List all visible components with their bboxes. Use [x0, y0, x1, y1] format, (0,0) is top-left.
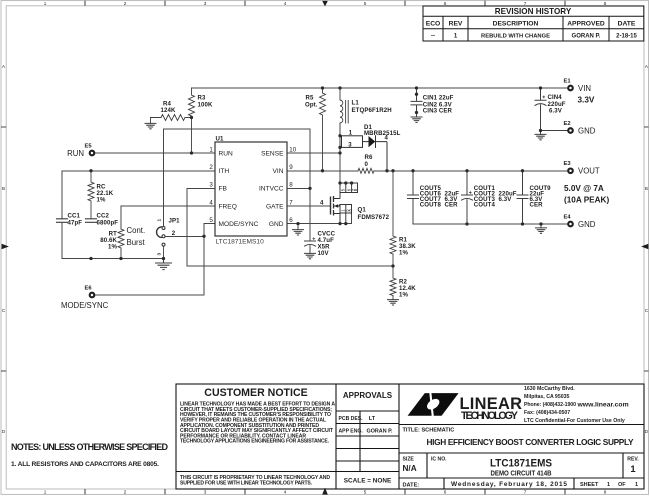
diode D1 dual schottky [340, 135, 387, 171]
svg-text:REBUILD WITH CHANGE: REBUILD WITH CHANGE [481, 34, 550, 40]
svg-text:5: 5 [364, 1, 367, 6]
ground at COUT rail [535, 228, 547, 233]
svg-text:1%: 1% [399, 249, 408, 256]
svg-text:1: 1 [209, 146, 213, 153]
svg-text:GATE: GATE [266, 203, 284, 210]
capacitor COUT1-4 (polarized) [462, 171, 473, 224]
svg-text:2-18-15: 2-18-15 [616, 34, 637, 40]
svg-text:APP ENG.: APP ENG. [339, 428, 364, 434]
transistor Q1 FDMS7672 [331, 183, 358, 224]
svg-text:SCALE = NONE: SCALE = NONE [344, 478, 392, 485]
svg-text:L1: L1 [352, 100, 360, 107]
svg-text:10V: 10V [318, 250, 330, 257]
IC U1 LTC1871EMS10 [215, 142, 287, 236]
svg-text:CIN3 CER: CIN3 CER [423, 108, 453, 115]
svg-text:6.3V: 6.3V [499, 196, 513, 203]
svg-text:TECHNOLOGY APPLICATIONS ENGINE: TECHNOLOGY APPLICATIONS ENGINEERING FOR … [180, 439, 330, 445]
svg-text:GORAN P.: GORAN P. [367, 428, 393, 434]
wire GND pin6 net [287, 213, 352, 230]
svg-text:6: 6 [444, 1, 447, 6]
svg-text:CC2: CC2 [97, 212, 110, 219]
svg-text:2: 2 [124, 490, 127, 495]
wire INTVCC net [164, 129, 311, 241]
svg-text:LT: LT [369, 416, 376, 422]
svg-text:1: 1 [44, 490, 47, 495]
svg-text:IC NO.: IC NO. [431, 456, 447, 462]
svg-text:HIGH EFFICIENCY BOOST CONVERTE: HIGH EFFICIENCY BOOST CONVERTER LOGIC SU… [427, 437, 634, 447]
Q1 pin digits 5678 [341, 188, 359, 212]
svg-text:6: 6 [444, 490, 447, 495]
svg-text:REV: REV [449, 21, 463, 28]
wire COUT ground rail [413, 224, 568, 228]
terminal E1 VIN [568, 86, 573, 91]
svg-text:VOUT: VOUT [578, 167, 600, 176]
svg-text:E4: E4 [564, 214, 572, 220]
svg-text:CC1: CC1 [68, 212, 81, 219]
svg-text:1630 McCarthy Blvd.: 1630 McCarthy Blvd. [524, 386, 575, 392]
ground at R4 [150, 118, 152, 124]
wire SENSE net [287, 152, 340, 154]
svg-text:PCB DES.: PCB DES. [339, 416, 364, 422]
svg-text:7: 7 [289, 199, 293, 206]
svg-text:E5: E5 [85, 144, 93, 150]
svg-text:2: 2 [209, 164, 213, 171]
svg-text:Opt.: Opt. [305, 101, 318, 108]
svg-text:10: 10 [289, 146, 296, 153]
svg-text:6: 6 [289, 217, 293, 224]
svg-text:DEMO CIRCUIT 414B: DEMO CIRCUIT 414B [491, 469, 552, 478]
svg-text:3: 3 [204, 1, 207, 6]
capacitor CIN4 (polarized) [535, 88, 546, 134]
resistor R1 [390, 171, 396, 266]
resistor R4 [151, 115, 192, 121]
svg-text:GND: GND [578, 220, 596, 229]
svg-text:1: 1 [349, 129, 353, 136]
svg-text:VIN: VIN [273, 168, 284, 175]
resistor R3 [189, 88, 195, 118]
svg-text:RUN: RUN [67, 149, 84, 158]
svg-text:1%: 1% [108, 243, 117, 250]
ground at R2 [387, 300, 399, 305]
svg-text:Milpitas, CA 95035: Milpitas, CA 95035 [524, 394, 569, 400]
svg-text:JP1: JP1 [169, 218, 181, 225]
svg-text:1: 1 [635, 482, 638, 488]
svg-text:4: 4 [209, 199, 213, 206]
svg-text:U1: U1 [216, 135, 225, 142]
inductor L1 [340, 88, 348, 123]
svg-text:8: 8 [604, 1, 607, 6]
svg-text:E6: E6 [85, 286, 93, 292]
wire GATE net [287, 205, 331, 207]
capacitor COUT9 [517, 171, 528, 224]
NOTES [11, 442, 169, 468]
svg-text:3: 3 [348, 141, 352, 148]
wire MODE/SYNC net [95, 224, 215, 295]
wire RUN net [95, 152, 215, 154]
svg-text:LTC1871EMS: LTC1871EMS [490, 457, 552, 469]
svg-text:APPROVALS: APPROVALS [343, 391, 393, 400]
svg-text:4: 4 [284, 490, 287, 495]
svg-text:DATE:: DATE: [403, 482, 420, 488]
REVISION HISTORY TABLE [423, 6, 644, 41]
svg-text:REVISION HISTORY: REVISION HISTORY [495, 7, 572, 16]
svg-text:DATE: DATE [618, 21, 636, 28]
wire pin9 VIN chip supply [287, 170, 358, 172]
svg-text:3: 3 [157, 253, 163, 256]
resistor R2 [390, 266, 396, 300]
capacitor CVCC [305, 241, 316, 253]
svg-text:Q1: Q1 [358, 206, 367, 213]
ground at U1 pin6 [292, 230, 304, 235]
svg-text:RUN: RUN [219, 150, 234, 157]
svg-text:MODE/SYNC: MODE/SYNC [219, 221, 259, 228]
svg-text:1%: 1% [399, 291, 408, 298]
U1 pin numbers [209, 146, 296, 224]
svg-text:47pF: 47pF [68, 219, 83, 226]
svg-text:N/A: N/A [403, 464, 417, 473]
wire E2 GND [541, 130, 569, 132]
svg-text:4: 4 [320, 199, 324, 206]
ground at CVCC [304, 253, 316, 258]
svg-text:1. ALL RESISTORS AND CAPACITO: 1. ALL RESISTORS AND CAPACITORS ARE 0805… [11, 461, 159, 468]
terminal E6 MODE/SYNC [90, 293, 95, 298]
svg-text:--: -- [431, 34, 435, 40]
svg-text:TECHNOLOGY: TECHNOLOGY [461, 410, 518, 422]
resistor RT [118, 229, 124, 248]
svg-text:Wednesday, February 18, 2015: Wednesday, February 18, 2015 [451, 481, 567, 488]
svg-text:CER: CER [530, 202, 544, 209]
SCHEMATIC TEXT [68, 94, 566, 298]
svg-text:FREQ: FREQ [219, 203, 237, 210]
svg-text:NOTES: UNLESS OTHERWISE SPECI: NOTES: UNLESS OTHERWISE SPECIFIED [11, 442, 169, 452]
svg-text:Cont.: Cont. [127, 226, 146, 235]
capacitor CIN1/CIN2/CIN3 [411, 88, 422, 117]
svg-text:R6: R6 [365, 154, 374, 161]
svg-text:MODE/SYNC: MODE/SYNC [61, 301, 109, 310]
svg-text:1%: 1% [97, 196, 106, 203]
svg-text:(10A PEAK): (10A PEAK) [564, 195, 609, 204]
jumper JP1 [157, 227, 165, 259]
wire R3 to RUN line [191, 118, 193, 154]
svg-text:3: 3 [209, 182, 213, 189]
svg-text:Phone: (408)432-1900: Phone: (408)432-1900 [524, 402, 576, 408]
svg-text:1: 1 [630, 463, 635, 474]
ground at CIN4/E2 [535, 134, 547, 139]
svg-text:1: 1 [157, 219, 163, 222]
svg-text:INTVCC: INTVCC [259, 186, 284, 193]
svg-text:COUT8: COUT8 [420, 202, 442, 209]
svg-text:E1: E1 [564, 78, 572, 84]
terminal E3 VOUT [568, 169, 573, 174]
svg-text:2: 2 [172, 230, 176, 237]
svg-text:CER: CER [445, 202, 459, 209]
svg-text:1: 1 [44, 1, 47, 6]
svg-text:7: 7 [524, 490, 527, 495]
logo Linear Technology [408, 393, 523, 423]
polarity marks [313, 96, 546, 240]
svg-text:E2: E2 [564, 121, 571, 127]
terminal E2 GND [568, 128, 573, 133]
svg-text:SHEET: SHEET [580, 482, 599, 488]
svg-text:SUPPLIED FOR USE WITH LINEAR T: SUPPLIED FOR USE WITH LINEAR TECHNOLOGY … [180, 481, 313, 487]
svg-text:ETQP6F1R2H: ETQP6F1R2H [352, 107, 392, 114]
svg-text:www.linear.com: www.linear.com [577, 401, 629, 408]
svg-text:APPROVED: APPROVED [567, 21, 605, 28]
capacitor CC2 [86, 219, 97, 223]
svg-text:ITH: ITH [219, 168, 230, 175]
wire FREQ net [121, 206, 215, 259]
svg-text:6800pF: 6800pF [97, 219, 119, 226]
svg-text:FDMS7672: FDMS7672 [358, 214, 390, 221]
resistor RC [88, 171, 94, 219]
svg-text:9: 9 [289, 164, 293, 171]
svg-text:OF: OF [618, 482, 626, 488]
svg-text:124K: 124K [161, 107, 176, 114]
svg-text:5: 5 [364, 490, 367, 495]
svg-text:LTC Confidential-For Customer: LTC Confidential-For Customer Use Only [524, 418, 625, 424]
svg-text:5.0V @ 7A: 5.0V @ 7A [564, 184, 604, 193]
wire ITH net [62, 171, 215, 259]
wire bottom-left ground rail [62, 258, 164, 260]
U1 pin names [219, 150, 285, 228]
resistor R5 [320, 88, 326, 171]
svg-text:7: 7 [524, 1, 527, 6]
svg-text:3: 3 [204, 490, 207, 495]
svg-text:FB: FB [219, 186, 228, 193]
svg-text:SENSE: SENSE [261, 150, 284, 157]
svg-text:VIN: VIN [578, 84, 591, 93]
svg-text:0: 0 [365, 161, 369, 168]
svg-text:GORAN P.: GORAN P. [572, 34, 601, 40]
svg-text:ECO: ECO [426, 21, 441, 28]
svg-text:GND: GND [578, 126, 596, 135]
svg-text:4: 4 [284, 1, 287, 6]
svg-text:6.3V: 6.3V [549, 107, 563, 114]
svg-text:B: B [2, 186, 5, 191]
TITLEBLOCK [176, 384, 644, 489]
svg-text:MBRB2515L: MBRB2515L [364, 130, 401, 137]
svg-text:4: 4 [385, 135, 389, 142]
resistor R6 [358, 168, 374, 173]
svg-text:Burst: Burst [127, 238, 146, 247]
svg-text:SIZE: SIZE [403, 456, 415, 462]
svg-text:Fax: (408)434-0507: Fax: (408)434-0507 [524, 410, 570, 416]
svg-text:LTC1871EMS10: LTC1871EMS10 [216, 239, 265, 246]
wire switch node column [339, 123, 341, 183]
svg-text:3.3V: 3.3V [578, 96, 595, 105]
svg-text:TITLE: SCHEMATIC: TITLE: SCHEMATIC [403, 428, 455, 434]
svg-text:5: 5 [209, 217, 213, 224]
svg-text:R5: R5 [306, 94, 315, 101]
svg-text:REV.: REV. [627, 456, 639, 462]
svg-text:E3: E3 [564, 161, 572, 167]
terminal E5 RUN [90, 151, 95, 156]
svg-text:DESCRIPTION: DESCRIPTION [493, 21, 539, 28]
capacitor CC1 [57, 219, 68, 223]
ground at CIN1 [411, 117, 423, 122]
terminal labels [85, 78, 572, 291]
wire VOUT rail [374, 170, 568, 172]
wire VIN 3.3V top rail [192, 87, 569, 89]
wire FB net [187, 188, 393, 266]
svg-text:8: 8 [604, 490, 607, 495]
svg-text:B: B [645, 186, 648, 191]
svg-text:CUSTOMER NOTICE: CUSTOMER NOTICE [204, 387, 307, 399]
ground at R4 [145, 123, 157, 128]
svg-text:COUT4: COUT4 [474, 202, 496, 209]
svg-text:2: 2 [124, 1, 127, 6]
svg-text:GND: GND [269, 221, 284, 228]
svg-text:1: 1 [607, 482, 610, 488]
terminal E4 GND [568, 222, 573, 227]
capacitor COUT5-8 [408, 171, 419, 224]
svg-text:100K: 100K [198, 101, 213, 108]
ground at JP1 [155, 259, 172, 270]
label U1 [216, 135, 265, 245]
svg-text:8: 8 [289, 182, 293, 189]
